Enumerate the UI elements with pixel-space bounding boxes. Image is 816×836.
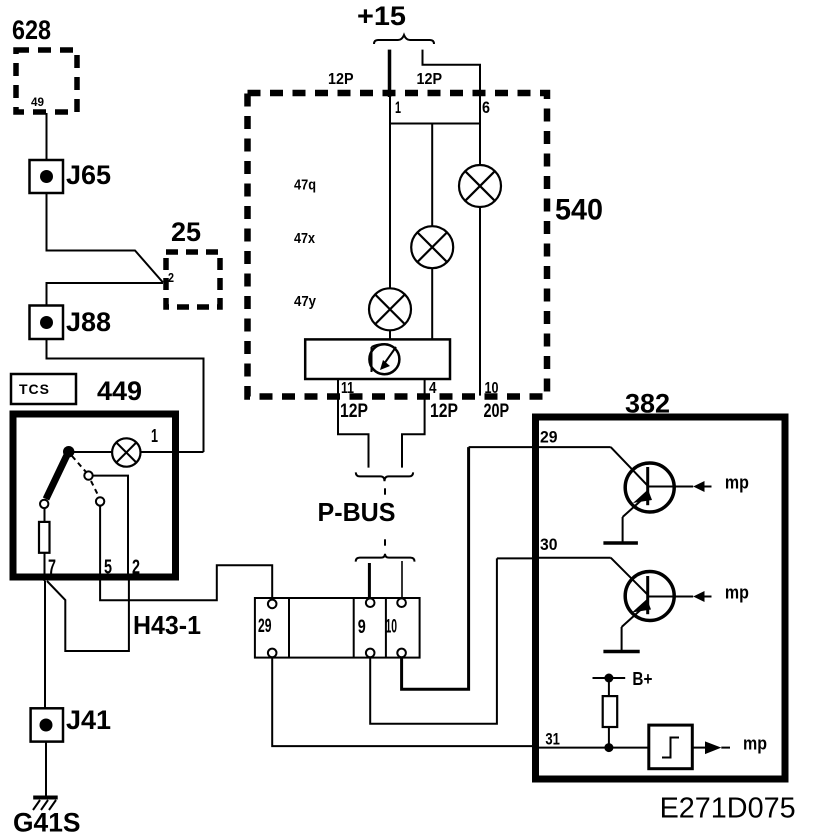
svg-text:9: 9 bbox=[358, 617, 366, 638]
svg-text:31: 31 bbox=[545, 730, 560, 749]
svg-text:47x: 47x bbox=[294, 230, 316, 247]
svg-text:+15: +15 bbox=[357, 1, 406, 31]
svg-text:E271D075: E271D075 bbox=[660, 793, 796, 825]
svg-text:2: 2 bbox=[168, 270, 174, 285]
svg-text:49: 49 bbox=[31, 95, 44, 109]
svg-text:30: 30 bbox=[540, 535, 558, 554]
svg-text:J88: J88 bbox=[66, 307, 111, 337]
svg-text:12P: 12P bbox=[430, 401, 458, 422]
svg-text:5: 5 bbox=[104, 557, 112, 579]
svg-text:25: 25 bbox=[171, 217, 201, 247]
svg-text:12P: 12P bbox=[328, 71, 354, 88]
svg-text:12P: 12P bbox=[340, 401, 368, 422]
svg-text:29: 29 bbox=[258, 616, 272, 637]
svg-text:20P: 20P bbox=[484, 401, 510, 422]
svg-text:1: 1 bbox=[151, 426, 158, 446]
svg-text:47q: 47q bbox=[294, 177, 316, 194]
svg-text:J65: J65 bbox=[66, 160, 111, 190]
svg-text:mp: mp bbox=[725, 473, 749, 493]
svg-text:540: 540 bbox=[555, 194, 603, 227]
svg-text:11: 11 bbox=[341, 380, 354, 397]
svg-text:4: 4 bbox=[429, 380, 437, 397]
svg-text:29: 29 bbox=[540, 428, 558, 447]
svg-text:B+: B+ bbox=[632, 669, 652, 689]
svg-text:10: 10 bbox=[386, 617, 398, 638]
svg-text:J41: J41 bbox=[66, 705, 111, 735]
svg-text:TCS: TCS bbox=[19, 381, 50, 397]
svg-text:628: 628 bbox=[12, 15, 51, 45]
svg-text:G41S: G41S bbox=[13, 808, 81, 836]
svg-text:6: 6 bbox=[482, 98, 490, 117]
svg-text:mp: mp bbox=[743, 734, 767, 754]
svg-text:12P: 12P bbox=[417, 71, 443, 88]
svg-text:2: 2 bbox=[132, 557, 140, 579]
svg-text:1: 1 bbox=[395, 98, 401, 117]
svg-text:47y: 47y bbox=[294, 293, 317, 310]
svg-text:mp: mp bbox=[725, 583, 749, 603]
svg-text:H43-1: H43-1 bbox=[133, 610, 201, 640]
svg-text:449: 449 bbox=[97, 376, 142, 406]
svg-text:10: 10 bbox=[485, 380, 499, 397]
svg-text:P-BUS: P-BUS bbox=[318, 497, 396, 527]
svg-text:7: 7 bbox=[48, 557, 56, 579]
